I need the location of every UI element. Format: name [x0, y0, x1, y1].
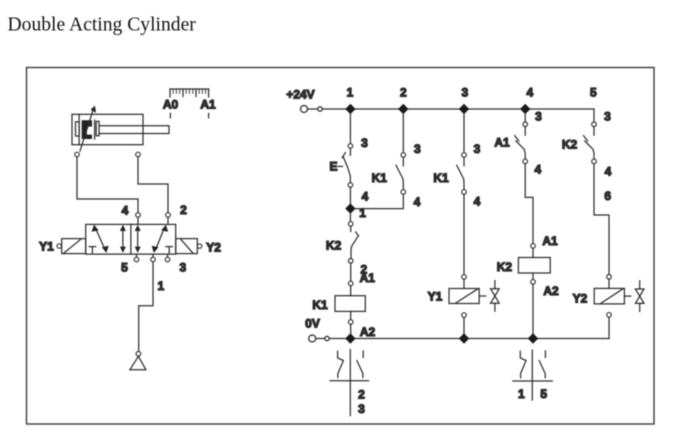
node 1 junction [345, 203, 366, 219]
wire E to node1 [349, 187, 351, 204]
svg-text:K2: K2 [562, 137, 578, 151]
svg-text:4: 4 [526, 85, 533, 99]
svg-text:3: 3 [361, 136, 368, 150]
contact K2 (NO) [326, 226, 359, 258]
svg-text:5: 5 [121, 260, 128, 274]
wire K1b to Y1 coil [463, 194, 465, 274]
svg-text:Y2: Y2 [206, 240, 221, 254]
air supply connector [136, 351, 141, 356]
svg-text:3: 3 [535, 110, 542, 124]
cylinder A barrel [72, 114, 143, 144]
valve port 4 [122, 203, 141, 224]
pin 4 of K1 contact a [401, 190, 421, 209]
wire K2 coil to 0V rail [532, 284, 534, 334]
wire Y2 to 0V rail [608, 317, 610, 338]
svg-text:K1: K1 [312, 298, 328, 312]
cylinder port left [75, 152, 80, 157]
0V supply terminal [305, 316, 329, 342]
pin 3 of A1 contact [523, 110, 542, 127]
ruler scale [170, 89, 209, 97]
wire A1 contact to K2 coil [525, 164, 533, 244]
node 1 label [347, 85, 354, 99]
svg-text:A2: A2 [360, 325, 376, 339]
pin 2 of K2 contact [348, 259, 367, 277]
wire col2 top [402, 113, 404, 153]
svg-text:4: 4 [122, 203, 129, 217]
svg-text:Y2: Y2 [573, 291, 588, 305]
svg-text:6: 6 [604, 189, 611, 203]
wire Y1 to 0V rail [463, 317, 465, 334]
junction 0V col4 [528, 333, 538, 343]
valve right box vertical double arrow [135, 225, 141, 253]
solenoid coil Y1 [428, 279, 480, 303]
cylinder port right [136, 152, 141, 157]
svg-text:2: 2 [400, 85, 407, 99]
marker A0 [163, 98, 179, 118]
node 3 label [462, 85, 469, 99]
junction 0V col1 [345, 333, 355, 343]
cylinder left cushion seal [76, 122, 80, 136]
pin of Y1 coil bottom [462, 313, 467, 318]
pin 3 of E [348, 136, 368, 150]
svg-text:K1: K1 [372, 171, 388, 185]
wire K2 to K1 coil [350, 263, 352, 281]
node 4 label [526, 85, 533, 99]
svg-text:3: 3 [358, 402, 365, 416]
junction rail col4 [520, 104, 530, 114]
pin 4 of K2 contact b [592, 159, 612, 178]
svg-text:A2: A2 [543, 284, 559, 298]
svg-text:A1: A1 [360, 271, 376, 285]
bottom rail 0V [329, 338, 609, 340]
svg-text:4: 4 [414, 195, 421, 209]
valve left box crossed arrow [92, 225, 109, 253]
pin 3 of K2 contact b [592, 110, 611, 127]
valve port 2 [166, 203, 187, 225]
rod-side cushion [96, 121, 99, 135]
valve right box blocked port T [166, 247, 173, 254]
svg-text:4: 4 [534, 162, 541, 176]
junction rail col1 [345, 104, 355, 114]
marker A1 [200, 98, 216, 118]
svg-text:1: 1 [518, 387, 525, 401]
solenoid Y2 [176, 239, 222, 255]
wire K1 coil to 0V rail [350, 324, 352, 334]
svg-text:4: 4 [474, 195, 481, 209]
svg-text:0V: 0V [305, 316, 320, 330]
junction rail col2 [398, 104, 408, 114]
svg-text:5: 5 [540, 387, 547, 401]
node 2 label [400, 85, 407, 99]
pin 3 of K1 contact b [462, 142, 481, 158]
valve left box blocked port T [89, 247, 96, 254]
svg-text:A1: A1 [200, 98, 216, 112]
wire col1 top [349, 113, 351, 144]
contact K1 b (NO) [433, 157, 464, 189]
svg-text:3: 3 [604, 110, 611, 124]
svg-text:5: 5 [590, 85, 597, 99]
wire col3 top [463, 113, 465, 153]
pin of Y2 coil bottom [607, 313, 612, 318]
pin A1 of K2 coil [531, 234, 558, 248]
coil K1 [312, 286, 365, 312]
pin 4 of A1 contact [523, 159, 542, 176]
air supply source triangle [130, 356, 146, 369]
wire col4 top [524, 113, 526, 122]
pin of Y2 coil top [607, 275, 612, 280]
wire node1 to K2 contact [349, 213, 351, 222]
contact K1 a (NO) [372, 157, 404, 189]
wire valve port 1 to air supply [139, 262, 153, 352]
wire col5 top [593, 109, 595, 122]
suppressor Y2 [624, 281, 644, 312]
svg-text:2: 2 [180, 203, 187, 217]
pin A2 of K1 coil [348, 311, 375, 339]
svg-text:4: 4 [605, 164, 612, 178]
svg-text:A1: A1 [494, 136, 510, 150]
svg-text:K2: K2 [326, 239, 342, 253]
pin of Y1 coil top [462, 275, 467, 280]
pin 6 label [604, 189, 611, 203]
svg-text:A0: A0 [163, 98, 179, 112]
junction rail col3 [459, 104, 469, 114]
contact linkage K1 (pins 2,3) [330, 350, 369, 416]
svg-text:3: 3 [462, 85, 469, 99]
svg-text:3: 3 [414, 142, 421, 156]
wire K2b to Y2 coil [594, 164, 609, 275]
svg-text:Y1: Y1 [39, 240, 54, 254]
pin 4 of K1 contact b [462, 190, 481, 209]
wire cylinder right port to valve port 2 [138, 157, 168, 213]
solenoid Y1 [39, 239, 86, 254]
svg-text:K2: K2 [497, 260, 513, 274]
svg-text:4: 4 [362, 189, 369, 203]
coil K2 [497, 248, 550, 274]
svg-text:3: 3 [474, 142, 481, 156]
pin 1 of K2 contact [348, 222, 353, 227]
valve port 3 [165, 254, 186, 274]
svg-text:1: 1 [347, 85, 354, 99]
contact linkage K2 (pins 1,5) [513, 350, 552, 401]
svg-text:K1: K1 [433, 171, 449, 185]
piston [82, 120, 95, 139]
valve port 1 [151, 254, 165, 293]
pushbutton E [329, 148, 350, 182]
valve V1 body [86, 224, 176, 254]
suppressor Y1 [479, 281, 499, 312]
wire K1a to node1 [355, 194, 403, 208]
svg-text:E: E [329, 160, 337, 174]
svg-text:+24V: +24V [286, 88, 314, 102]
svg-text:2: 2 [358, 387, 365, 401]
pin A2 of K2 coil [531, 273, 559, 298]
+24V supply terminal [286, 88, 322, 113]
top rail +24V [322, 108, 594, 110]
junction 0V col3 [459, 333, 469, 343]
svg-text:3: 3 [179, 261, 186, 275]
piston rod [99, 126, 169, 134]
pin 4 of E [348, 183, 369, 204]
valve right box diagonal arrow [152, 225, 169, 253]
pin A1 of K1 coil [348, 271, 375, 286]
pin 3 of K1 contact a [401, 142, 421, 158]
node 5 label [590, 85, 597, 99]
cushioning adjust arrow [80, 106, 96, 151]
svg-text:Double Acting Cylinder: Double Acting Cylinder [8, 15, 197, 36]
solenoid coil Y2 [573, 279, 625, 305]
svg-text:A1: A1 [542, 234, 558, 248]
contact A1 (limit NO) [494, 127, 525, 159]
wire cylinder left port to valve port 4 [77, 157, 138, 213]
svg-text:1: 1 [157, 279, 164, 293]
svg-text:Y1: Y1 [428, 289, 443, 303]
contact K2 b (NO) [562, 127, 594, 159]
svg-text:1: 1 [359, 206, 366, 220]
valve port 5 [121, 254, 139, 274]
valve left box vertical double arrow [120, 225, 126, 253]
